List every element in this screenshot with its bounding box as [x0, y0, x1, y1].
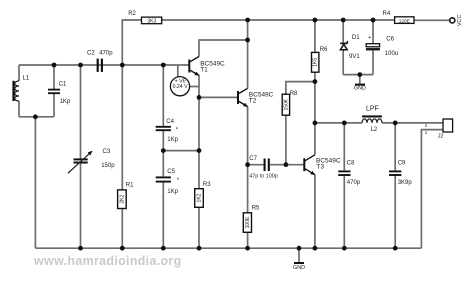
- wire: R6 bottom to T3 collector column: [314, 72, 316, 155]
- wire: C4-C5 middle lead: [162, 131, 164, 176]
- junction node: T2 collector at top rail: [245, 18, 250, 23]
- svg-text:T2: T2: [249, 97, 257, 104]
- wire: T1 emitter column: [198, 75, 200, 188]
- junction node: R8 top at R6 column: [313, 79, 318, 84]
- transistor T3 BC549C: [304, 155, 341, 175]
- wire: D1 top lead: [342, 20, 344, 43]
- svg-text:VCC: VCC: [457, 14, 463, 26]
- svg-text:www.hamradioindia.org: www.hamradioindia.org: [33, 254, 182, 268]
- wire: R8 top elbow to R6 column: [286, 82, 315, 95]
- junction node: C9 at ground rail: [393, 246, 398, 251]
- junction node: T1 collector rail tee: [245, 38, 250, 43]
- svg-text:R5: R5: [252, 205, 260, 211]
- electrolytic capacitor C6 100u: [366, 35, 398, 57]
- wire: tank ground drop x=35.4: [34, 117, 36, 248]
- transistor T2 BC549C: [238, 88, 274, 106]
- svg-text:R6: R6: [320, 47, 328, 53]
- resistor R3: [195, 182, 212, 207]
- wire: regulator ground link y=74.6: [343, 74, 373, 76]
- svg-text:470p: 470p: [99, 50, 113, 56]
- capacitor C2: [87, 50, 113, 72]
- junction node: R8 bottom / T3 base: [284, 162, 289, 167]
- svg-text:2: 2: [425, 123, 428, 128]
- svg-text:C8: C8: [347, 161, 355, 167]
- svg-text:R1: R1: [126, 182, 134, 188]
- transistor T1 BC549C: [189, 57, 225, 76]
- junction node: D1 at top rail: [341, 18, 346, 23]
- svg-text:9V1: 9V1: [349, 54, 360, 60]
- junction node: C3 at ground rail: [78, 246, 83, 251]
- svg-text:L2: L2: [371, 127, 378, 133]
- capacitor C9: [389, 161, 412, 186]
- wire: midpoint link to emitter y=150.6: [163, 150, 199, 152]
- svg-text:3K3: 3K3: [147, 18, 156, 24]
- resistor R1: [118, 182, 135, 208]
- svg-text:D1: D1: [352, 35, 360, 41]
- svg-text:1Kp: 1Kp: [60, 99, 71, 105]
- VCC terminal: [450, 14, 463, 26]
- capacitor C4: [156, 119, 179, 143]
- wire: C8 bottom lead: [343, 176, 345, 248]
- svg-text:100u: 100u: [385, 51, 398, 57]
- svg-text:GND: GND: [354, 86, 366, 92]
- svg-text:R8: R8: [290, 91, 298, 97]
- svg-text:C6: C6: [386, 37, 394, 43]
- wire: top rail y=20: [161, 19, 394, 21]
- wire: R1 bottom lead: [121, 209, 123, 249]
- svg-text:47p to 100p: 47p to 100p: [249, 174, 277, 180]
- junction node: LPF rail at T3 collector: [313, 121, 318, 126]
- variable capacitor C3: [68, 149, 115, 173]
- junction node: C6 at top rail: [371, 18, 376, 23]
- resistor R6: [312, 47, 329, 72]
- svg-text:C4: C4: [166, 119, 174, 125]
- resistor R5: [243, 205, 260, 232]
- wire: C1 top lead: [53, 65, 55, 89]
- wire: bottom ground rail y=248.2: [35, 247, 421, 249]
- svg-text:L1: L1: [23, 76, 30, 82]
- wire: C1 bottom lead: [53, 93, 55, 117]
- resistor R4: [383, 11, 415, 24]
- wire: LPF rail left y=122.9: [315, 122, 362, 124]
- ground (main rail): [293, 248, 305, 271]
- capacitor C7: [249, 156, 277, 180]
- wire: C7 left lead: [248, 164, 264, 166]
- junction node: C1 top: [52, 63, 57, 68]
- svg-text:0.24 V: 0.24 V: [173, 84, 189, 90]
- svg-text:J2: J2: [438, 133, 444, 139]
- svg-text:150p: 150p: [101, 163, 115, 169]
- ground (regulator): [354, 75, 366, 92]
- wire: T3 emitter column: [314, 175, 316, 249]
- junction node: tank bottom tee: [33, 114, 38, 119]
- svg-text:C9: C9: [398, 161, 406, 167]
- wire: D1 bottom lead: [342, 50, 344, 75]
- wire: T1 collector to rail elbow: [199, 40, 248, 57]
- svg-text:470p: 470p: [347, 180, 361, 186]
- svg-text:R4: R4: [383, 11, 391, 17]
- svg-text:LPF: LPF: [366, 105, 379, 112]
- junction node: T2 emitter / C7: [245, 162, 250, 167]
- capacitor C5: [156, 169, 180, 195]
- junction node: R6 at top rail: [313, 18, 318, 23]
- svg-text:1K5: 1K5: [313, 58, 319, 67]
- junction node: C9 at LPF rail: [393, 121, 398, 126]
- svg-text:+: +: [368, 35, 371, 41]
- junction node: R3 at ground rail: [197, 246, 202, 251]
- svg-text:C1: C1: [59, 81, 67, 87]
- resistor R8: [282, 91, 298, 115]
- junction node: C3 top: [78, 63, 83, 68]
- wire: R3 bottom lead: [198, 207, 200, 248]
- wire: C3 bottom lead: [80, 163, 82, 248]
- junction node: emitter at midpoint link: [197, 148, 202, 153]
- wire: R8 bottom lead: [285, 115, 287, 165]
- wire: T2 emitter column: [247, 107, 249, 213]
- wire: R4 to VCC lead: [414, 19, 450, 21]
- svg-text:1Kp: 1Kp: [167, 189, 178, 195]
- svg-text:*: *: [176, 128, 179, 134]
- junction node: regulator ground tee: [357, 72, 362, 77]
- svg-text:R2: R2: [128, 11, 136, 17]
- svg-text:3K9p: 3K9p: [398, 180, 413, 186]
- svg-text:GND: GND: [293, 265, 305, 271]
- svg-text:1Kp: 1Kp: [167, 137, 178, 143]
- svg-text:*: *: [177, 178, 180, 184]
- wire: tank bottom link: [19, 116, 54, 118]
- wire: LPF rail right: [382, 122, 443, 124]
- junction node: T3 emitter at ground rail: [313, 246, 318, 251]
- wire: C7 right lead to T3 base: [270, 164, 305, 166]
- wire: voltmeter stem: [177, 65, 179, 77]
- svg-text:100E: 100E: [245, 216, 251, 228]
- wire: C6 top lead: [372, 20, 374, 44]
- voltmeter annotation +VE 0.24V: [170, 77, 189, 96]
- zener diode D1 9V1: [340, 35, 360, 60]
- capacitor C8: [338, 161, 361, 186]
- capacitor C1: [48, 81, 71, 105]
- wire: C3 top lead: [80, 65, 82, 159]
- junction node: R1 at ground rail: [120, 246, 125, 251]
- svg-text:1: 1: [425, 130, 428, 135]
- wire: C9 bottom lead: [394, 176, 396, 248]
- wire: C6 bottom lead: [372, 50, 374, 74]
- wire: C8 top lead: [343, 123, 345, 170]
- junction node: R5 at ground rail: [245, 246, 250, 251]
- wire: L1 top lead: [18, 65, 20, 81]
- wire: main input line y=65: [19, 64, 189, 66]
- wire: R6 top lead: [314, 20, 316, 52]
- wire: C9 top lead: [394, 123, 396, 170]
- svg-text:R3: R3: [203, 182, 211, 188]
- junction node: C5 at ground rail: [161, 246, 166, 251]
- svg-text:2K2: 2K2: [119, 195, 125, 204]
- wire: T2 collector lead: [247, 20, 249, 88]
- svg-text:C3: C3: [103, 149, 111, 155]
- junction node: R1/R2 column at main line: [120, 63, 125, 68]
- svg-text:150K: 150K: [283, 98, 289, 110]
- svg-text:120E: 120E: [399, 18, 410, 24]
- junction node: C8 at ground rail: [342, 246, 347, 251]
- wire: T2 base link y=97.4: [199, 96, 238, 98]
- svg-text:C5: C5: [167, 169, 175, 175]
- wire: L1 bottom lead: [18, 101, 20, 117]
- junction node: T1 emitter / T2 base: [197, 95, 202, 100]
- junction node: C4-C5 midpoint: [161, 148, 166, 153]
- wire: R2/R1 column x=122.3: [122, 20, 141, 190]
- wire: J2 pin1 ground drop: [421, 130, 443, 249]
- junction node: C8 at LPF rail: [342, 121, 347, 126]
- svg-text:T1: T1: [200, 66, 208, 73]
- resistor R2: [128, 11, 162, 25]
- inductor L1: [12, 76, 29, 101]
- wire: C5 bottom lead: [162, 183, 164, 249]
- svg-text:T3: T3: [317, 163, 325, 170]
- connector J2: [425, 119, 453, 139]
- junction node: C4 column at main line: [161, 63, 166, 68]
- svg-text:C7: C7: [249, 156, 257, 162]
- wire: voltmeter link to emitter: [190, 86, 199, 88]
- low pass filter inductor L2: [362, 105, 382, 133]
- wire: C4/C5 column top lead: [162, 65, 164, 126]
- svg-text:1K2: 1K2: [197, 193, 203, 202]
- junction node: GND symbol at ground rail: [297, 246, 302, 251]
- wire: R5 bottom lead: [247, 232, 249, 248]
- svg-text:C2: C2: [87, 50, 95, 56]
